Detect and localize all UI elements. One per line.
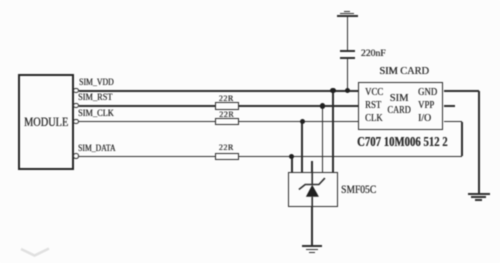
power symbol bar wide: [337, 15, 359, 17]
resistor R1 22R body: [215, 102, 240, 110]
capacitor C1 top plate: [340, 50, 355, 52]
wire TVS NC pin stub: [311, 161, 313, 172]
wire I/O stub: [444, 121, 463, 123]
wire capacitor to SIM_VDD line: [347, 59, 349, 91]
junction dot SIM_VDD drop: [330, 88, 335, 93]
junction dot SIM_RST drop: [320, 103, 325, 108]
pin label RST: [365, 101, 381, 112]
wire GND pin to ground riser: [444, 90, 479, 92]
capacitor C1 bottom plate: [340, 57, 355, 59]
ground bottom bar1: [302, 245, 322, 247]
power symbol bar top: [344, 11, 350, 13]
resistor R2 value 22R: [219, 111, 234, 119]
ground right bar1: [468, 193, 489, 195]
wire SIM_RST right: [239, 105, 359, 107]
junction dot SIM_CLK drop: [300, 119, 305, 124]
net label SIM_RST: [78, 94, 112, 103]
ground bottom bar2: [306, 249, 319, 251]
wire SIM_CLK right: [239, 121, 359, 123]
net label SIM_CLK: [78, 110, 114, 119]
TVS array SMF05C box: [288, 172, 338, 207]
resistor R1 value 22R: [219, 95, 234, 103]
wire SIM_VDD: [79, 90, 359, 92]
part number C707 10M006 512 2: [357, 135, 448, 149]
tvs label SMF05C: [341, 185, 376, 196]
resistor R2 22R body: [215, 118, 240, 126]
inner label SIM: [390, 93, 409, 104]
pin circle SIM_RST: [73, 103, 78, 108]
ground right bar2: [471, 196, 486, 198]
wire SIM_CLK left: [79, 121, 215, 123]
module box MODULE: [18, 74, 73, 169]
wire SIM_CLK drop to TVS: [301, 122, 303, 172]
ground bottom bar3: [309, 252, 315, 254]
wire SIM_DATA drop to TVS: [291, 156, 293, 172]
capacitor C1 value 220nF: [361, 49, 386, 59]
resistor R3 22R body: [215, 153, 240, 161]
module label MODULE: [24, 116, 68, 129]
pin label CLK: [365, 114, 383, 125]
wire ground riser: [478, 91, 480, 194]
wire power to capacitor: [347, 17, 349, 50]
junction dot SIM_DATA drop: [289, 154, 294, 159]
junction dot capacitor/SIM_VDD: [345, 88, 350, 93]
ground right bar3: [475, 199, 482, 201]
pin circle SIM_DATA: [73, 153, 78, 158]
net label SIM_DATA: [78, 145, 115, 154]
wire VPP stub: [444, 105, 455, 107]
wire SMF05C to ground: [311, 207, 313, 246]
wire SIM_VDD drop to TVS: [332, 91, 334, 172]
pin circle SIM_CLK: [73, 119, 78, 124]
pin label I/O: [418, 114, 431, 125]
resistor R3 value 22R: [219, 144, 234, 152]
wire SIM_DATA left: [79, 156, 215, 158]
SIM card connector J1 box: [358, 82, 443, 130]
watermark chevron: [20, 247, 50, 258]
pin label VCC: [365, 88, 383, 99]
wire SIM_DATA right to I/O riser: [239, 156, 462, 158]
wire I/O riser down to SIM_DATA: [461, 122, 463, 157]
pin label VPP: [418, 101, 434, 112]
connector title SIM CARD: [379, 67, 429, 78]
pin circle SIM_VDD: [73, 88, 78, 93]
inner label CARD: [387, 106, 410, 117]
net label SIM_VDD: [79, 79, 114, 88]
pin label GND: [418, 88, 437, 99]
wire SIM_RST left: [79, 105, 215, 107]
power symbol bar middle: [340, 13, 354, 15]
wire SIM_RST drop to TVS: [322, 106, 324, 172]
TVS diode symbol: [288, 172, 338, 208]
